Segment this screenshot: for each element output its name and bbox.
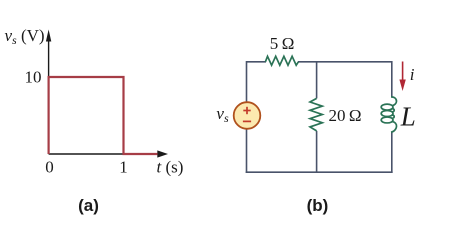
svg-text:i: i [410,65,415,84]
wire: bottom segment [246,171,393,173]
resistor 20 ohm (vertical zigzag) [310,98,322,130]
wire: top-left segment [247,61,267,63]
svg-text:(a): (a) [78,196,99,215]
wire: middle branch lower [316,131,318,173]
resistor 5 ohm (horizontal zigzag) [265,56,298,65]
svg-text:L: L [400,101,416,131]
svg-text:5 Ω: 5 Ω [270,34,295,53]
wire: top-right segment [298,61,392,63]
svg-text:10: 10 [25,67,42,86]
wire: right branch lower [391,132,393,173]
current arrow i (red) [399,62,405,92]
y-axis (vs axis) of graph (a) [46,30,51,155]
svg-text:1: 1 [119,158,128,177]
voltage source vs (circle with + -) [234,102,261,129]
x-axis (t axis) of graph (a) [49,150,168,157]
svg-text:(b): (b) [307,196,329,215]
svg-text:20 Ω: 20 Ω [329,106,362,125]
inductor L (coil) [381,97,396,132]
svg-text:0: 0 [45,158,54,177]
wire: middle branch upper [316,61,318,98]
wire: left branch upper [246,61,248,103]
wire: left branch lower [246,129,248,174]
vs pulse waveform (red) [49,77,158,154]
svg-text:t (s): t (s) [157,158,184,177]
wire: right branch upper [391,61,393,98]
svg-text:vs (V): vs (V) [5,26,45,47]
